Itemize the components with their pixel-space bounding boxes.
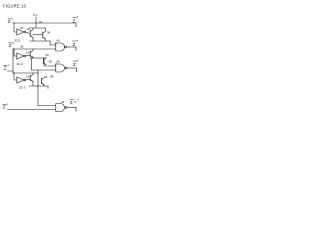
wire stub rail3 right end bbox=[47, 86, 49, 89]
wire inverter1 input bbox=[14, 23, 17, 32]
svg-text:Z: Z bbox=[8, 19, 11, 24]
wire gate2 output bbox=[67, 67, 77, 69]
svg-text:34: 34 bbox=[39, 20, 43, 24]
wire gate3 output bbox=[67, 107, 76, 109]
wire inverter3 input bbox=[14, 73, 17, 80]
svg-text:32-3: 32-3 bbox=[19, 86, 25, 90]
svg-text:Z: Z bbox=[3, 105, 6, 110]
wire rail2 corner to gate2 upper input bbox=[44, 58, 56, 66]
wire bus corner into gate3 upper input bbox=[38, 105, 56, 107]
svg-text:16: 16 bbox=[26, 51, 30, 55]
wire row3 from label bbox=[8, 71, 14, 73]
wire bottom row horizontal bbox=[8, 109, 56, 111]
wire inverter3 output bbox=[26, 79, 30, 80]
transistor Q3a bbox=[29, 76, 31, 81]
svg-text:40: 40 bbox=[57, 39, 61, 43]
svg-text:16: 16 bbox=[26, 75, 30, 79]
bus vertical x38 down to gate3 bbox=[37, 70, 39, 106]
wire inverter2 output bbox=[26, 55, 30, 56]
wire inverter1 output bbox=[26, 32, 30, 34]
svg-text:30: 30 bbox=[20, 45, 24, 49]
wire Vcc lead vertical bbox=[35, 17, 37, 28]
rail row1 lower bbox=[30, 40, 50, 42]
transistor Q2b bbox=[43, 59, 45, 64]
svg-text:Z: Z bbox=[73, 42, 76, 48]
node junction at (36,23) bbox=[35, 22, 38, 25]
bus left vertical bbox=[12, 49, 14, 71]
rail row3 lower bbox=[29, 85, 48, 87]
svg-text:Z: Z bbox=[9, 43, 12, 48]
inverter 32-3 triangle bbox=[17, 77, 24, 83]
inverter 32-2 triangle bbox=[17, 53, 24, 59]
gate U1 (NAND) bbox=[56, 43, 65, 51]
wire gate1 output bbox=[67, 46, 77, 48]
svg-text:30: 30 bbox=[20, 26, 24, 30]
svg-text:Z: Z bbox=[73, 18, 76, 24]
wire base link row1 bbox=[33, 34, 43, 36]
svg-text:Z: Z bbox=[73, 62, 76, 68]
terminal tick row1 right bbox=[75, 23, 77, 26]
rail row2 lower bbox=[30, 57, 44, 59]
svg-text:42: 42 bbox=[61, 100, 65, 104]
wire row2 drop to y70 line bbox=[32, 58, 56, 70]
inverter 32-1 triangle bbox=[17, 29, 24, 35]
svg-text:40: 40 bbox=[57, 60, 61, 64]
svg-text:36: 36 bbox=[47, 31, 51, 35]
svg-text:38: 38 bbox=[50, 75, 54, 79]
svg-text:38: 38 bbox=[49, 60, 53, 64]
gate U3 (NAND) bbox=[56, 104, 65, 112]
svg-text:Z: Z bbox=[70, 100, 73, 105]
wire row2 horizontal (to gate1 lower input) bbox=[13, 48, 56, 50]
wire inverter2 input bbox=[14, 49, 17, 56]
wire to gate1 upper input bbox=[50, 41, 56, 45]
svg-text:Z: Z bbox=[4, 66, 7, 71]
transistor Q2a bbox=[29, 52, 31, 57]
svg-text:32-2: 32-2 bbox=[17, 62, 23, 66]
transistor Q1b bbox=[42, 32, 44, 38]
wire row3 horizontal bbox=[13, 72, 38, 74]
svg-text:36: 36 bbox=[46, 53, 50, 57]
gate U2 (NAND) bbox=[56, 64, 65, 72]
svg-text:FIGURE 10: FIGURE 10 bbox=[3, 4, 27, 9]
transistor Q3b bbox=[41, 79, 43, 84]
svg-text:36: 36 bbox=[44, 75, 48, 79]
svg-text:32-1: 32-1 bbox=[15, 39, 21, 43]
transistor Q1a bbox=[29, 31, 31, 37]
svg-text:N: N bbox=[74, 100, 76, 104]
rail row1 upper bbox=[29, 27, 46, 29]
wire row1 horizontal bbox=[13, 22, 76, 24]
